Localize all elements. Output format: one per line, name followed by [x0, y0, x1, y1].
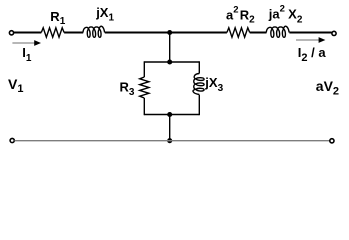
terminal top-right	[332, 31, 336, 35]
resistor a2R2	[227, 28, 250, 37]
terminal bottom-right	[330, 139, 334, 143]
wire shunt bottom bar	[144, 114, 199, 116]
terminal top-left	[9, 31, 13, 35]
wire bottom rail	[15, 140, 332, 142]
wire jX1 to a2R2	[105, 32, 227, 34]
wire shunt top bar	[144, 61, 199, 63]
node junction shunt bottom	[167, 112, 172, 117]
wire vertical stub bottom	[169, 115, 171, 141]
resistor R3	[140, 77, 149, 98]
terminal bottom-left	[10, 138, 14, 142]
inductor ja2X2	[266, 26, 289, 37]
wire vertical stub top	[169, 33, 171, 63]
node junction top	[167, 30, 172, 35]
node junction shunt top	[167, 59, 172, 64]
wire a2R2 to ja2X2	[250, 32, 267, 34]
wire shunt right lower	[198, 95, 200, 116]
inductor jX1	[83, 26, 105, 37]
wire R1 to jX1	[64, 32, 83, 34]
wire ja2X2 to top-right terminal	[289, 32, 331, 34]
node junction bottom	[167, 138, 172, 143]
wire shunt left upper	[143, 61, 145, 77]
inductor jX3	[193, 74, 204, 95]
wire top rail left segment	[14, 32, 42, 34]
wire shunt right upper	[198, 61, 200, 73]
arrow I2/a	[296, 39, 320, 41]
resistor R1	[41, 28, 64, 37]
arrow I1	[12, 42, 36, 44]
wire shunt left lower	[143, 98, 145, 115]
